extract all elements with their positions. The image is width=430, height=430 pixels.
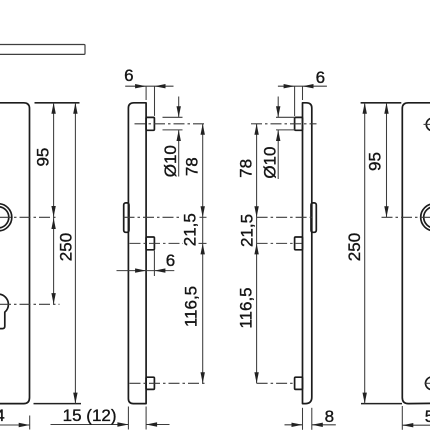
- plate D top extension line: [361, 102, 402, 104]
- plate D handle hole outer: [421, 204, 430, 231]
- plate D outline: [402, 103, 430, 404]
- top view bar: [0, 45, 85, 55]
- dim line 78/21,5/116,5 profile B: [202, 124, 204, 384]
- profile C hole centerline: [251, 123, 317, 125]
- profile B hub bump: [124, 203, 129, 232]
- svg-text:Ø10: Ø10: [161, 145, 180, 177]
- dim Ø10 profile B: [178, 97, 180, 118]
- profile B bottom boss centerline: [130, 382, 207, 384]
- dim 6 middle profile B: [117, 270, 175, 272]
- svg-text:Ø10: Ø10: [261, 147, 280, 179]
- plate A handle centerline: [0, 216, 57, 218]
- dim line 95 plate D: [386, 103, 388, 218]
- plate D top screw centerline: [424, 123, 430, 125]
- dim Ø10 profile C: [277, 97, 279, 118]
- dim line 78/21,5/116,5 profile C: [256, 124, 258, 384]
- plate A width dim line: [0, 424, 30, 426]
- svg-text:21,5: 21,5: [180, 213, 199, 246]
- profile C top boss: [295, 117, 303, 130]
- svg-text:78: 78: [182, 157, 201, 176]
- svg-text:116,5: 116,5: [236, 287, 255, 328]
- dim 15 (12) profile B: [127, 407, 129, 430]
- plate A top extension line: [35, 102, 80, 104]
- profile C bottom boss: [295, 377, 303, 389]
- svg-text:6: 6: [316, 68, 325, 87]
- plate A bottom extension line: [34, 403, 82, 405]
- svg-text:95: 95: [34, 148, 53, 167]
- profile B bottom boss: [146, 377, 154, 389]
- profile C middle boss centerline: [257, 242, 302, 244]
- plate D width dim line: [402, 424, 430, 426]
- plate D top screw hole: [426, 118, 430, 131]
- profile B middle boss: [146, 237, 154, 250]
- dim line 250 plate A: [74, 103, 76, 404]
- profile B outline: [128, 103, 146, 404]
- profile C bottom boss centerline: [257, 382, 296, 384]
- svg-text:8: 8: [325, 407, 334, 426]
- profile B top boss: [146, 117, 154, 130]
- plate A keyhole centerline: [0, 303, 60, 305]
- plate A outline: [0, 103, 30, 404]
- plate A handle hole inner: [0, 207, 9, 228]
- svg-text:4: 4: [0, 406, 5, 425]
- svg-text:6: 6: [166, 251, 175, 270]
- svg-text:250: 250: [345, 233, 364, 261]
- profile C outline: [303, 103, 312, 404]
- dim line 95/92 plate A: [53, 103, 55, 304]
- plate A handle hole outer: [0, 204, 12, 231]
- plate D bottom extension line: [361, 403, 402, 405]
- svg-text:6: 6: [124, 66, 133, 85]
- svg-text:15 (12): 15 (12): [63, 406, 117, 425]
- plate A keyhole: [0, 294, 8, 329]
- svg-text:55: 55: [425, 407, 430, 426]
- plate D handle hole inner: [424, 207, 430, 228]
- profile B hole centerline: [135, 123, 205, 125]
- plate D handle centerline: [382, 216, 430, 218]
- profile B handle centerline: [124, 216, 181, 218]
- profile C hub bump: [311, 203, 316, 232]
- dim line 250 plate D: [364, 103, 366, 404]
- svg-text:78: 78: [236, 159, 255, 178]
- svg-text:95: 95: [366, 152, 385, 171]
- svg-text:21,5: 21,5: [237, 214, 256, 247]
- profile B middle boss centerline: [130, 242, 184, 244]
- plate D bottom screw centerline: [425, 382, 430, 384]
- svg-text:116,5: 116,5: [182, 286, 201, 327]
- plate D bottom screw hole: [426, 377, 430, 390]
- profile C middle boss: [295, 237, 303, 250]
- profile C handle centerline: [257, 216, 313, 218]
- dim 6 top profile C: [278, 85, 327, 87]
- dim 8 profile C: [302, 408, 304, 430]
- dim 6 top profile B: [125, 85, 173, 87]
- svg-text:250: 250: [56, 233, 75, 261]
